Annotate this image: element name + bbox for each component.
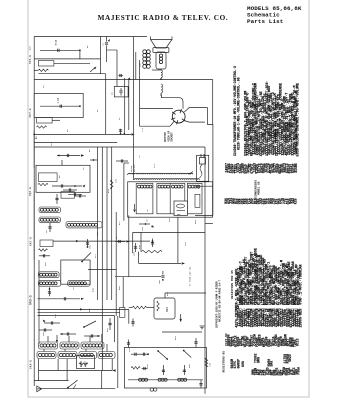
svg-text:8228·TUBULAR·1·MEG.·VOLUME·CON: 8228·TUBULAR·1·MEG.·VOLUME·CONTROL·.05 xyxy=(236,77,240,150)
svg-text:R10: R10 xyxy=(138,244,141,249)
svg-text:6Q7-G: 6Q7-G xyxy=(29,187,32,196)
svg-text:1.05: 1.05 xyxy=(57,97,60,103)
svg-text:.47: .47 xyxy=(102,42,105,47)
svg-text:L03: L03 xyxy=(139,62,142,67)
svg-text:Parts List: Parts List xyxy=(247,18,283,25)
svg-text:MODEL 85: MODEL 85 xyxy=(258,181,261,195)
svg-text:314B6: 314B6 xyxy=(294,163,298,173)
svg-text:6K7-G: 6K7-G xyxy=(30,237,33,246)
svg-text:3C13: 3C13 xyxy=(295,339,299,347)
svg-text:23869·RESISTOR·.1·MFD.·TUBULAR: 23869·RESISTOR·.1·MFD.·TUBULAR xyxy=(299,264,303,328)
svg-text:6W0SP: 6W0SP xyxy=(236,359,240,369)
svg-text:L04: L04 xyxy=(141,226,144,231)
svg-text:6K8-G: 6K8-G xyxy=(30,360,33,369)
svg-text:12: 12 xyxy=(292,199,295,203)
svg-text:6F6-G: 6F6-G xyxy=(29,55,32,64)
svg-text:P36A: P36A xyxy=(297,367,301,375)
svg-text:RESISTORS·85: RESISTORS·85 xyxy=(223,351,226,373)
svg-text:PART·NO: PART·NO xyxy=(225,333,228,346)
svg-text:6K7-G: 6K7-G xyxy=(29,108,32,117)
svg-text:R14: R14 xyxy=(107,188,110,193)
svg-text:5339·VOLUME·CONTROL·.05·MFD.·V: 5339·VOLUME·CONTROL·.05·MFD.·VOLUME xyxy=(297,83,301,157)
svg-text:716: 716 xyxy=(209,362,212,367)
svg-text:RESISTORS MOD 85: RESISTORS MOD 85 xyxy=(231,270,234,299)
svg-text:L06: L06 xyxy=(115,178,118,183)
svg-text:MAJESTIC RADIO & TELEV. CO.: MAJESTIC RADIO & TELEV. CO. xyxy=(98,14,229,22)
svg-text:GUG: GUG xyxy=(241,361,245,367)
svg-text:MAJESTIC·85·86·8K·PAGE·14-7: MAJESTIC·85·86·8K·PAGE·14-7 xyxy=(218,280,221,322)
svg-text:6F PARR AND TEL: 6F PARR AND TEL xyxy=(189,266,192,286)
svg-text:SAK: SAK xyxy=(270,361,274,367)
svg-text:6A8-G: 6A8-G xyxy=(29,295,33,305)
svg-text:6E5: 6E5 xyxy=(166,307,169,312)
svg-text:R16: R16 xyxy=(92,287,95,292)
svg-text:BMH: BMH xyxy=(256,357,260,363)
svg-text:L05: L05 xyxy=(133,251,136,256)
svg-text:ON-OFF: ON-OFF xyxy=(133,164,136,172)
svg-text:SOCKET: SOCKET xyxy=(171,132,174,142)
svg-text:4023: 4023 xyxy=(288,354,292,362)
